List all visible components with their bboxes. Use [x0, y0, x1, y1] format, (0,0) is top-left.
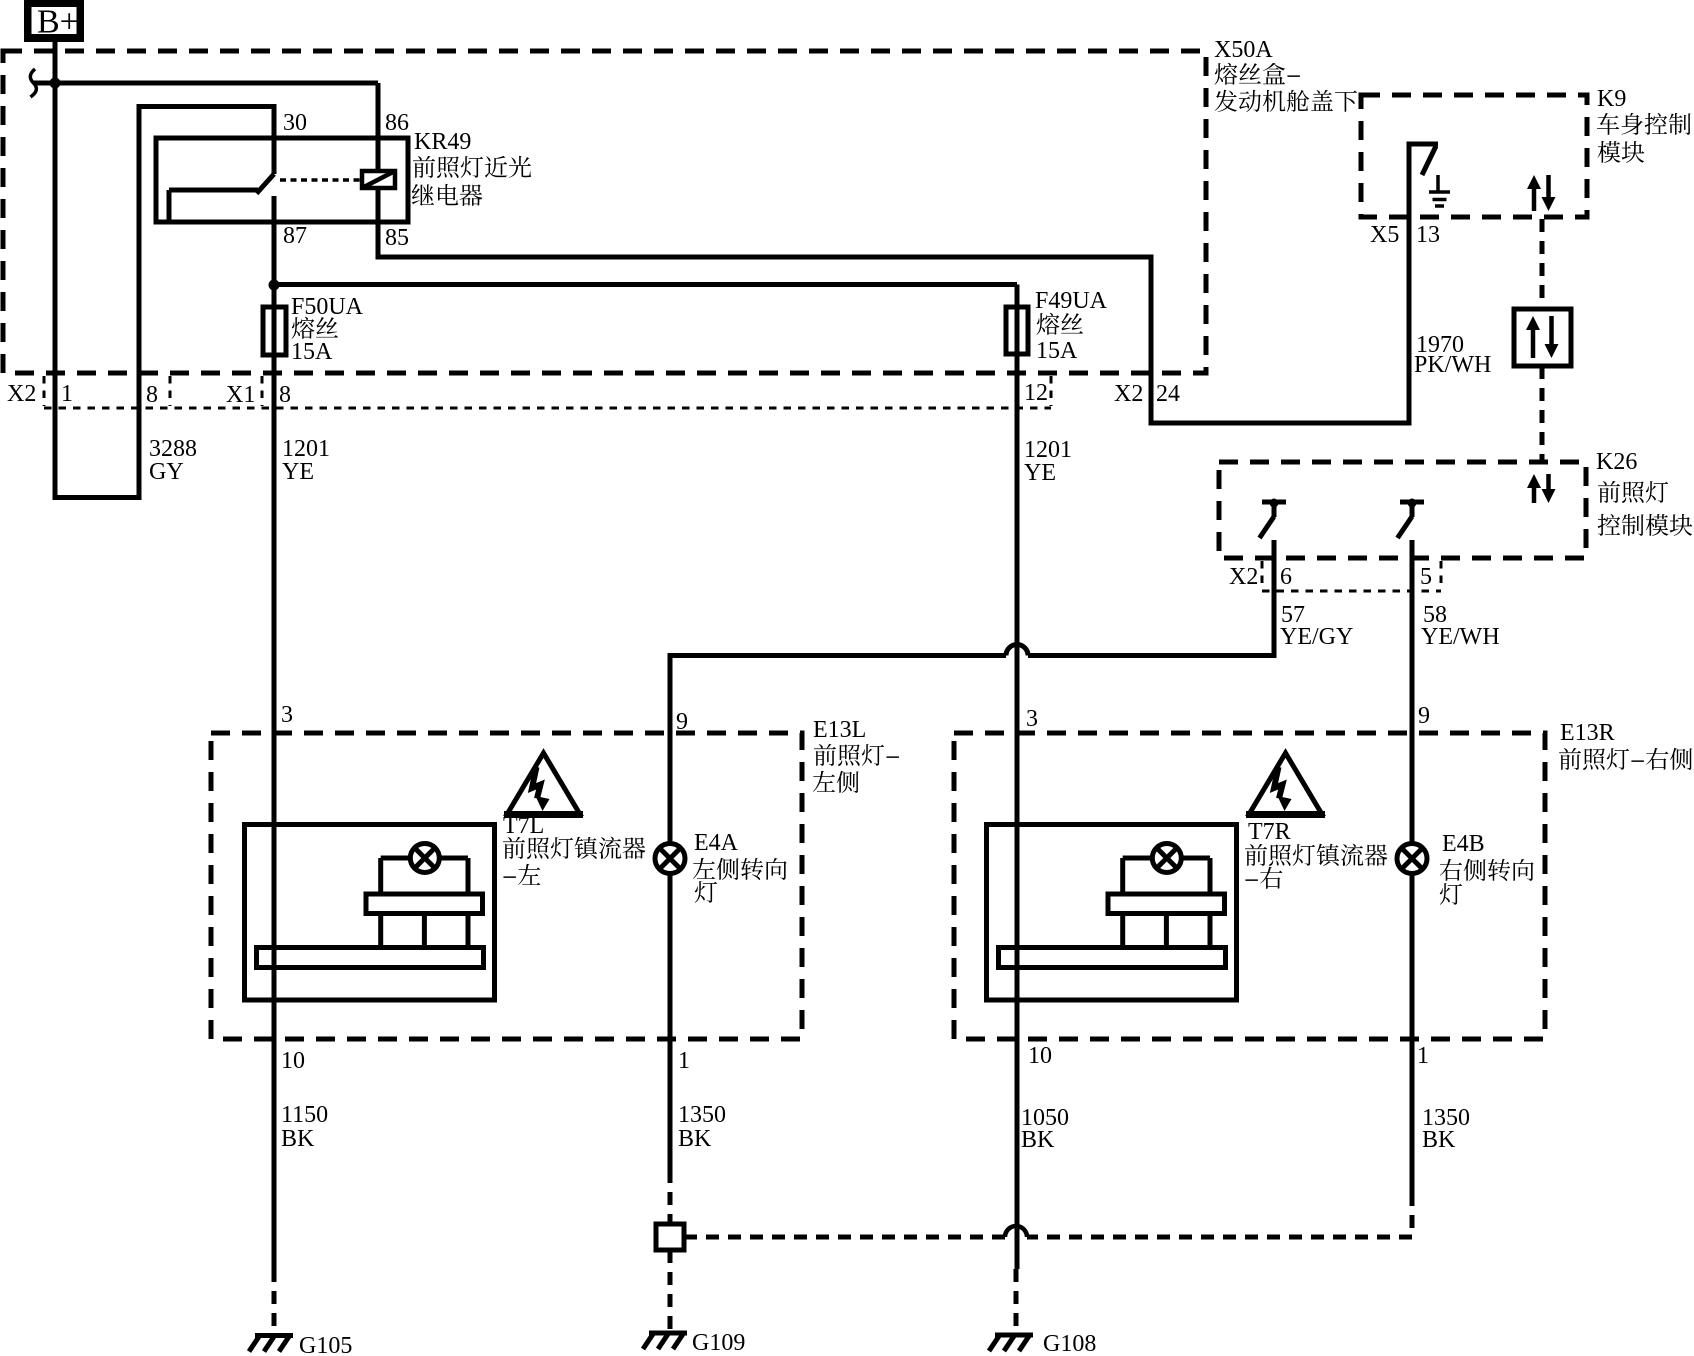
- svg-text:T7L: T7L: [503, 813, 544, 839]
- dashed data wire K9 to arrow box: [1540, 219, 1545, 309]
- svg-text:YE: YE: [1024, 460, 1056, 486]
- svg-text:F49UA: F49UA: [1035, 288, 1108, 314]
- svg-text:9: 9: [1418, 703, 1430, 729]
- ground G108 symbol: [995, 1333, 1033, 1338]
- wire 1201 YE right vertical: [1015, 285, 1020, 1270]
- svg-text:X1: X1: [226, 382, 255, 408]
- fuse F49UA: [1006, 307, 1028, 354]
- wire U-loop to relay pin 30: [55, 495, 139, 500]
- wire to fuse F49UA: [272, 282, 1017, 287]
- K9 bidirectional data arrows: [1532, 189, 1537, 211]
- svg-text:K9: K9: [1597, 86, 1626, 112]
- wire E4B to pin 1: [1410, 874, 1415, 1194]
- ground G109 symbol: [649, 1331, 687, 1336]
- headlamp E13L dashed box: [211, 733, 802, 1039]
- dashed wire splice box to ground G109: [668, 1250, 673, 1334]
- svg-text:BK: BK: [1021, 1127, 1055, 1153]
- wire horizontal to relay coil pin 86: [33, 81, 378, 86]
- svg-text:E13L: E13L: [813, 717, 866, 743]
- splice symbol at wire end: [30, 69, 36, 97]
- relay pin 86 lead: [376, 83, 381, 171]
- ground G105 symbol: [255, 1333, 293, 1338]
- junction dot at fuse F50UA: [269, 280, 280, 291]
- svg-text:B+: B+: [37, 4, 79, 41]
- svg-text:GY: GY: [149, 459, 184, 485]
- svg-text:K26: K26: [1596, 449, 1637, 475]
- relay pin 85 lead: [376, 188, 381, 257]
- fuse F50UA: [263, 307, 286, 355]
- K9 internal switch: [1407, 142, 1412, 220]
- turn signal lamp E4A: [655, 844, 685, 874]
- svg-text:87: 87: [283, 223, 307, 249]
- wire E4A to pin 1: [668, 874, 673, 1171]
- svg-text:X5: X5: [1370, 222, 1399, 248]
- data-link arrow box: [1514, 309, 1571, 366]
- svg-text:BK: BK: [678, 1126, 712, 1152]
- K9 internal ground: [1436, 175, 1440, 191]
- svg-text:1350: 1350: [678, 1102, 726, 1128]
- svg-text:13: 13: [1416, 222, 1440, 248]
- module K9 dashed box: [1361, 95, 1587, 217]
- svg-text:X50A: X50A: [1214, 37, 1273, 63]
- relay coil: [362, 171, 395, 188]
- svg-text:PK/WH: PK/WH: [1414, 352, 1491, 378]
- svg-text:1: 1: [1417, 1043, 1429, 1069]
- arrow box arrows: [1531, 330, 1536, 358]
- svg-text:10: 10: [281, 1048, 305, 1074]
- svg-text:G109: G109: [692, 1330, 745, 1356]
- svg-text:15A: 15A: [291, 339, 333, 365]
- ballast unit T7L drawing: [245, 825, 495, 1001]
- svg-text:X2: X2: [1229, 564, 1258, 590]
- splice box: [656, 1224, 684, 1250]
- dashed wire 1150 BK to ground G105: [272, 1269, 277, 1334]
- K26 connector separators: [1261, 561, 1264, 589]
- svg-text:1: 1: [678, 1048, 690, 1074]
- K26 switch 2: [1400, 500, 1424, 505]
- svg-text:YE/WH: YE/WH: [1421, 624, 1500, 650]
- connector row dotted line: [44, 407, 1051, 410]
- headlamp E13R dashed box: [954, 733, 1545, 1039]
- dashed wire E4B down: [1410, 1193, 1415, 1237]
- wire B+ vertical drop: [53, 42, 58, 500]
- svg-text:BK: BK: [1422, 1127, 1456, 1153]
- dashed wire 1050 BK to ground G108: [1014, 1269, 1019, 1334]
- relay coupling dashed link: [280, 178, 360, 182]
- svg-text:E4A: E4A: [694, 830, 739, 856]
- svg-text:30: 30: [283, 110, 307, 136]
- relay KR49 box: [156, 138, 408, 222]
- svg-text:E13R: E13R: [1560, 720, 1615, 746]
- relay pin 87 lead: [272, 196, 277, 285]
- relay fixed contact L-wire: [169, 188, 258, 193]
- K26 switch 1: [1262, 500, 1286, 505]
- svg-text:X2: X2: [7, 381, 36, 407]
- dashed data wire arrow box to K26: [1540, 366, 1545, 462]
- svg-text:G108: G108: [1043, 1331, 1096, 1356]
- svg-text:F50UA: F50UA: [291, 294, 364, 320]
- svg-text:3: 3: [281, 702, 293, 728]
- relay pin 30 lead: [272, 138, 277, 174]
- connector row separators: [43, 376, 46, 406]
- svg-text:8: 8: [146, 382, 158, 408]
- svg-text:G105: G105: [299, 1333, 352, 1356]
- dashed ground wire with hop: [684, 1235, 1412, 1240]
- svg-text:T7R: T7R: [1248, 819, 1291, 845]
- svg-text:85: 85: [385, 225, 409, 251]
- K26 data arrows: [1532, 488, 1537, 503]
- module K26 dashed box: [1219, 462, 1586, 558]
- svg-text:1: 1: [61, 381, 73, 407]
- wire 57 YE/GY run: [1272, 558, 1277, 658]
- svg-text:1150: 1150: [281, 1102, 328, 1128]
- junction dot at B+ wire: [50, 78, 61, 89]
- wire relay 85 to BCM K9: [376, 257, 1407, 423]
- svg-text:15A: 15A: [1036, 338, 1078, 364]
- wire 58 YE/WH run: [1410, 558, 1415, 844]
- svg-text:10: 10: [1028, 1043, 1052, 1069]
- svg-text:9: 9: [676, 709, 688, 735]
- svg-text:24: 24: [1156, 381, 1180, 407]
- K26 connector dotted line: [1262, 590, 1441, 593]
- svg-text:KR49: KR49: [414, 129, 471, 155]
- turn signal lamp E4B: [1397, 844, 1427, 874]
- svg-text:3: 3: [1026, 706, 1038, 732]
- battery feed terminal B+: [24, 0, 84, 42]
- svg-text:E4B: E4B: [1442, 831, 1485, 857]
- svg-text:5: 5: [1420, 564, 1432, 590]
- relay switch blade: [257, 174, 275, 194]
- high voltage warning triangle T7R: [1250, 753, 1322, 814]
- high voltage warning triangle T7L: [508, 753, 580, 814]
- svg-text:X2: X2: [1114, 381, 1143, 407]
- wire 1201 YE left vertical: [272, 285, 277, 1269]
- svg-text:YE/GY: YE/GY: [1280, 624, 1353, 650]
- fuse box X50A dashed enclosure: [3, 51, 1206, 373]
- svg-text:6: 6: [1280, 564, 1292, 590]
- svg-text:YE: YE: [282, 459, 314, 485]
- svg-text:12: 12: [1024, 380, 1048, 406]
- ballast unit T7R drawing: [987, 825, 1237, 1001]
- dashed wire E4A to splice box: [668, 1170, 673, 1224]
- svg-text:8: 8: [279, 382, 291, 408]
- svg-text:86: 86: [385, 110, 409, 136]
- svg-text:BK: BK: [281, 1126, 315, 1152]
